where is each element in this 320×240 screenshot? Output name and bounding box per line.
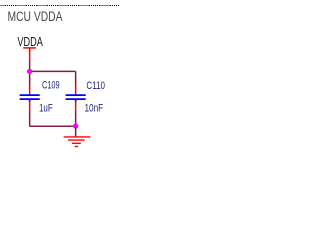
capacitor C110 pin 1 (75, 86, 77, 94)
junction node A (27, 69, 32, 74)
wire VDDA vertical to node A (29, 60, 31, 86)
wire bottom horizontal (30, 125, 76, 127)
ground symbol (64, 137, 91, 147)
capacitor C109 pin 2 (29, 102, 31, 110)
capacitor C110 pin 2 (75, 102, 77, 110)
svg-text:VDDA: VDDA (17, 34, 43, 49)
power port VDDA bar symbol (23, 47, 36, 49)
svg-text:MCU VDDA: MCU VDDA (8, 9, 63, 24)
wire top horizontal (30, 70, 76, 72)
wire ground stem (75, 126, 77, 136)
capacitor C110 plates (66, 95, 86, 101)
sheet boundary dotted line (1, 5, 120, 7)
capacitor C109 plates (20, 95, 40, 101)
svg-text:1uF: 1uF (39, 103, 53, 115)
wire C110 bottom vertical (75, 110, 77, 127)
power port VDDA stem (29, 48, 31, 60)
wire right vertical to C110 (75, 71, 77, 86)
wire C109 bottom vertical (29, 110, 31, 127)
svg-text:10nF: 10nF (85, 103, 104, 115)
capacitor C109 pin 1 (29, 86, 31, 94)
svg-text:C110: C110 (86, 80, 105, 92)
svg-text:C109: C109 (42, 80, 60, 92)
junction node B (73, 123, 78, 128)
